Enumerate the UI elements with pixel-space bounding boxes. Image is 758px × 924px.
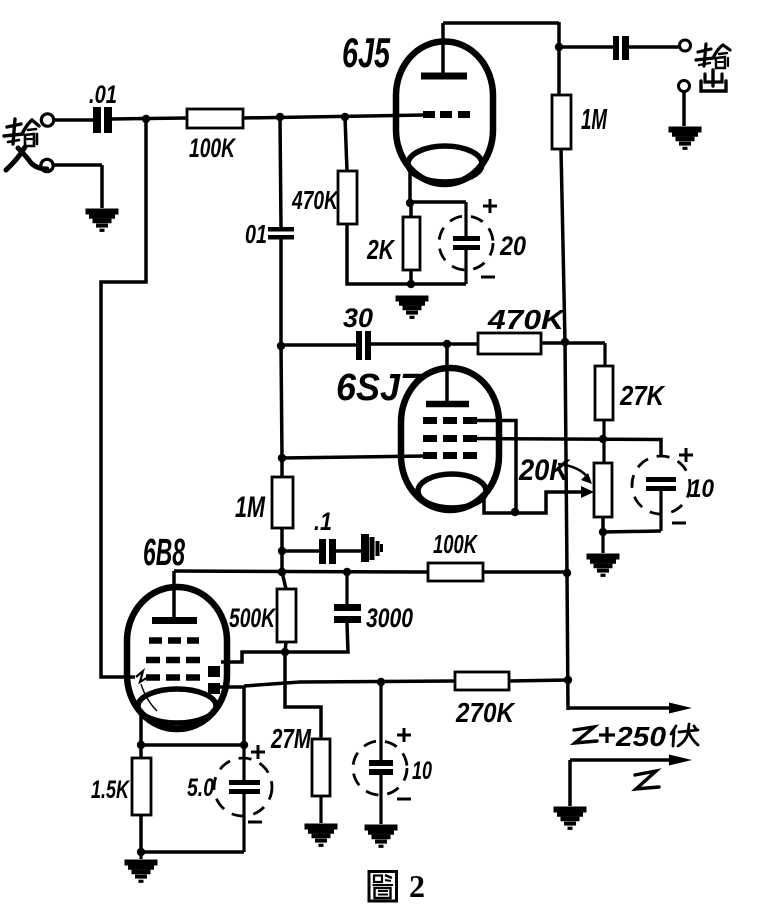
svg-text:1.5K: 1.5K — [91, 776, 130, 804]
svg-text:5.0: 5.0 — [187, 774, 214, 802]
svg-text:3000: 3000 — [366, 603, 413, 633]
svg-text:1M: 1M — [235, 491, 266, 524]
svg-text:270K: 270K — [455, 697, 515, 728]
svg-text:2: 2 — [409, 868, 425, 904]
svg-text:250: 250 — [615, 721, 667, 752]
svg-text:470K: 470K — [291, 185, 339, 215]
svg-text:30: 30 — [343, 303, 373, 333]
svg-text:1M: 1M — [581, 104, 608, 136]
svg-text:470K: 470K — [487, 304, 566, 335]
svg-text:.1: .1 — [314, 508, 332, 536]
svg-text:10: 10 — [689, 475, 714, 503]
svg-text:100K: 100K — [433, 529, 479, 559]
svg-text:2K: 2K — [366, 234, 395, 265]
svg-text:20: 20 — [499, 231, 526, 261]
svg-text:27M: 27M — [270, 723, 311, 754]
svg-text:6J5: 6J5 — [342, 29, 390, 76]
svg-text:500K: 500K — [229, 603, 277, 633]
svg-text:01: 01 — [245, 219, 267, 249]
svg-text:10: 10 — [412, 757, 432, 785]
svg-text:27K: 27K — [619, 380, 665, 411]
svg-text:6B8: 6B8 — [143, 532, 186, 574]
svg-text:20K: 20K — [518, 454, 571, 487]
svg-text:.01: .01 — [89, 81, 117, 109]
svg-text:100K: 100K — [189, 133, 237, 163]
